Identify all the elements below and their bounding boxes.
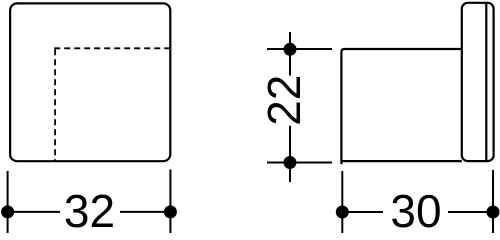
dim 32: dimension line right segment	[120, 211, 170, 213]
dim 22: dimension line bottom segment	[289, 126, 291, 182]
dim 32: left extension line	[7, 171, 9, 233]
svg-text:30: 30	[390, 185, 441, 233]
dim 30: left dot	[336, 206, 349, 219]
dim 30: right dot	[487, 206, 500, 219]
dim 22: top extension line	[267, 48, 332, 50]
side view: wall plate inner edge line	[485, 4, 487, 160]
svg-text:22: 22	[258, 75, 310, 126]
svg-text:32: 32	[64, 185, 115, 233]
dim 30: right extension line	[492, 170, 494, 233]
hidden edge: horizontal dashed line	[54, 47, 170, 49]
dim 22: dimension line top segment	[289, 32, 291, 76]
dim 32: left dot	[1, 205, 14, 218]
side view: body block outline	[341, 49, 461, 164]
dim 32: dimension line left segment	[8, 211, 60, 213]
dim 22: bottom extension line	[267, 162, 332, 164]
dim 22: top dot	[284, 43, 297, 56]
dim 30: dimension line right segment	[448, 211, 493, 213]
dim 32: right dot	[164, 205, 177, 218]
front view: square body outline	[10, 3, 170, 161]
dim 32: right extension line	[169, 169, 171, 233]
dim 30: left extension line	[341, 171, 343, 233]
dim 30: dimension line left segment	[342, 211, 383, 213]
side view: wall plate outline	[462, 3, 494, 161]
hidden edge: vertical dashed line	[54, 49, 56, 161]
dim 22: bottom dot	[284, 156, 297, 169]
